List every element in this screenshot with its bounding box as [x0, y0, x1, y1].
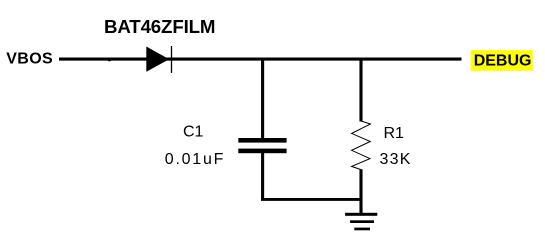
- svg-text:VBOS: VBOS: [6, 51, 53, 68]
- wire bottom horizontal: [261, 198, 363, 201]
- svg-text:C1: C1: [183, 124, 204, 141]
- svg-text:33K: 33K: [380, 151, 412, 168]
- node DEBUG: [471, 50, 533, 71]
- wire main horizontal: [59, 58, 462, 61]
- wire C1 branch bottom: [261, 153, 264, 200]
- svg-text:R1: R1: [384, 125, 405, 142]
- svg-text:DEBUG: DEBUG: [474, 52, 532, 69]
- resistor R1: [352, 121, 371, 170]
- capacitor C1: [238, 138, 286, 153]
- wire R1 branch bottom: [359, 169, 362, 213]
- svg-text:BAT46ZFILM: BAT46ZFILM: [104, 16, 215, 37]
- svg-text:0.01uF: 0.01uF: [165, 151, 225, 168]
- ground: [345, 213, 377, 231]
- diode D1 BAT46ZFILM: [146, 46, 171, 73]
- wire R1 branch top: [359, 58, 362, 122]
- wire C1 branch top: [261, 58, 264, 139]
